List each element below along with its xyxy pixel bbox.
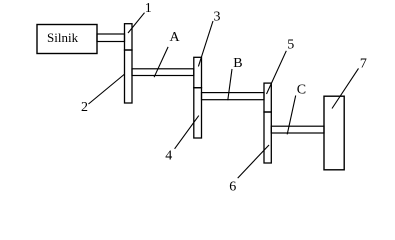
leader line A [154,47,168,77]
leader line C [287,96,296,135]
svg-text:1: 1 [145,1,152,16]
svg-text:4: 4 [165,149,172,164]
leader line 5 [267,51,287,94]
svg-text:6: 6 [229,179,236,194]
svg-text:7: 7 [360,57,367,72]
leader line 2 [89,74,125,104]
leader line 1 [128,13,145,33]
svg-text:B: B [233,56,242,71]
leader line 7 [332,68,359,108]
gear 5 [264,83,271,112]
svg-text:2: 2 [81,100,88,115]
leader line 4 [175,116,199,149]
gear 6 [264,112,271,163]
leader line 6 [238,145,269,178]
shaft B [202,93,265,100]
svg-text:A: A [170,30,181,45]
motor shaft [97,34,125,42]
gear 2 [125,50,133,103]
shaft A [132,69,194,76]
svg-text:3: 3 [214,10,221,25]
leader line 3 [198,21,213,66]
svg-text:5: 5 [287,38,294,53]
shaft C [271,126,324,133]
machine box 7 [324,96,344,170]
gear 1 [125,24,133,50]
gear 4 [194,88,202,138]
leader line B [228,69,232,100]
gear 3 [194,57,202,87]
svg-text:C: C [297,83,306,98]
motor box Silnik [37,25,97,54]
svg-text:Silnik: Silnik [47,30,79,45]
